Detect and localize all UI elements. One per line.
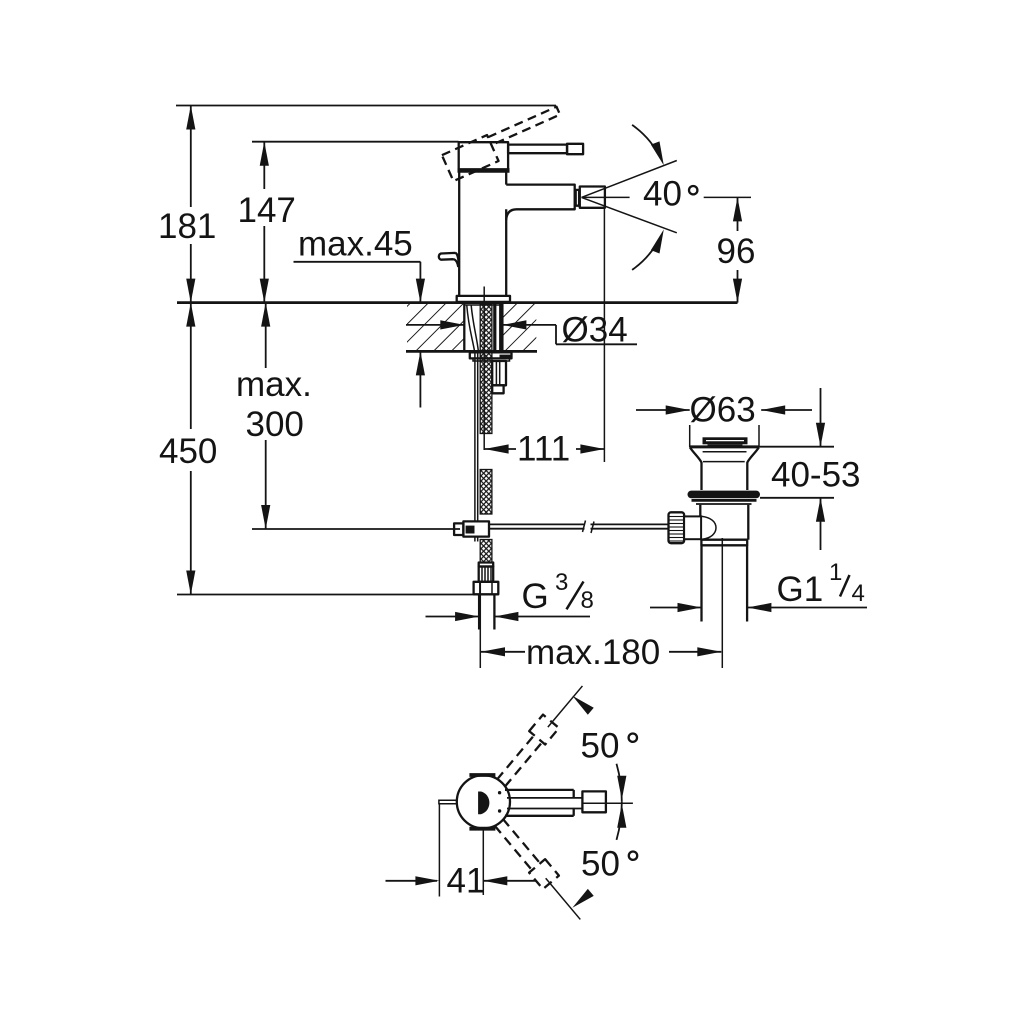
braided flex hose middle segment <box>480 470 492 515</box>
top view handle lever <box>505 790 583 816</box>
hose tail tube <box>478 594 480 629</box>
faucet lever handle horizontal <box>508 145 567 154</box>
dimension 40-53 <box>749 388 861 550</box>
svg-text:8: 8 <box>581 587 594 614</box>
svg-text:max.: max. <box>236 365 312 404</box>
50 degree arc lower <box>617 802 622 840</box>
svg-text:111: 111 <box>517 430 570 469</box>
dashed ghost handle rotated down 50 degrees <box>492 815 590 926</box>
dimension Ø63 <box>636 391 812 448</box>
pop-up pull knob on body <box>439 253 459 267</box>
mounting shank walls through counter <box>463 303 465 352</box>
pop-up waste tailpipe <box>700 545 702 621</box>
wire spout-top reference line (147) <box>252 141 459 143</box>
top view D-shaped logo mark <box>478 792 489 815</box>
svg-text:40: 40 <box>643 175 682 214</box>
mounting stud and nut below counter <box>492 361 506 385</box>
wire bottom reference line (450) <box>177 594 475 596</box>
svg-text:max.45: max.45 <box>298 225 413 264</box>
dimension 147 <box>238 142 296 303</box>
svg-text:G: G <box>522 577 549 616</box>
dimension max.180 <box>480 583 721 672</box>
svg-text:4: 4 <box>852 580 865 607</box>
hose end fitting threads <box>479 563 494 567</box>
counter cross-section hatching left <box>407 304 464 350</box>
spout <box>506 185 575 220</box>
pop-up waste o-ring <box>688 491 761 499</box>
drain centerline <box>721 538 723 668</box>
aerator ring <box>576 190 579 206</box>
wire max.300 bottom reference line <box>252 528 460 530</box>
knurled adjuster knob <box>669 512 685 543</box>
threaded stud dark bars in shank <box>493 304 496 351</box>
top view handle end knob <box>582 791 606 812</box>
fastening washer below counter <box>470 352 512 358</box>
top view screw dots <box>498 791 501 794</box>
braided flex hose upper segment <box>480 304 492 434</box>
top view cap chord top <box>469 773 495 777</box>
extension line from aerator down to 111 dimension <box>603 209 605 463</box>
svg-text:3: 3 <box>555 569 568 596</box>
wire counter bottom surface line <box>406 350 537 353</box>
svg-text:300: 300 <box>246 405 304 444</box>
svg-text:Ø63: Ø63 <box>690 391 756 430</box>
horizontal pop-up linkage rod <box>489 523 585 525</box>
svg-text:50: 50 <box>581 727 620 766</box>
dashed ghost handle rotated up 50 degrees <box>492 678 590 789</box>
pop-up rod tee clamp <box>454 523 463 535</box>
40 degree arc upper <box>632 125 661 159</box>
top view cap chord bottom <box>469 827 495 831</box>
top view faucet body circle <box>457 775 510 828</box>
dimension G 3/8 <box>426 569 594 621</box>
svg-text:1: 1 <box>829 559 842 586</box>
svg-text:96: 96 <box>717 232 756 271</box>
pop-up rod vertical <box>474 352 476 521</box>
50 degree arc upper <box>617 764 622 802</box>
wire counter top surface line <box>177 301 738 304</box>
dimension 41 <box>386 805 537 901</box>
counter cross-section hatching right <box>503 304 536 350</box>
svg-text:G1: G1 <box>777 570 824 609</box>
svg-text:41: 41 <box>447 862 486 901</box>
dimension 181 <box>158 106 216 303</box>
pop-up waste collar <box>692 499 757 502</box>
hose connection nut G3/8 <box>474 582 499 595</box>
svg-text:max.180: max.180 <box>526 633 660 672</box>
braided flex hose lower segment <box>480 540 492 563</box>
dashed ghost of tilted lever <box>442 105 567 182</box>
dimension 111 <box>485 430 605 469</box>
dimension G1 1/4 <box>650 559 867 612</box>
svg-text:450: 450 <box>159 432 217 471</box>
pop-up waste lower band <box>701 540 747 546</box>
pop-up waste flange <box>689 445 759 448</box>
dimension max.45 (deck thickness) <box>294 225 426 408</box>
40 degree arc lower <box>632 236 661 270</box>
dimension 96 <box>717 197 756 302</box>
dimension 450 <box>159 303 217 595</box>
spray cone lines <box>582 161 677 198</box>
svg-text:50: 50 <box>581 845 620 884</box>
pop-up waste body <box>699 505 701 540</box>
top view handle axis line <box>582 802 633 804</box>
svg-text:147: 147 <box>238 191 296 230</box>
top view pop-up rod at rear <box>439 800 458 803</box>
faucet cap (cartridge housing) <box>459 142 508 170</box>
faucet base flange <box>457 296 510 302</box>
dimension Ø34 with leader <box>406 311 637 350</box>
faucet body walls <box>458 171 460 296</box>
svg-text:Ø34: Ø34 <box>562 311 628 350</box>
svg-text:181: 181 <box>158 207 216 246</box>
knob stem into drain body <box>684 516 701 539</box>
wire top reference line (total height 181) <box>176 105 556 107</box>
aerator / mousseur <box>580 187 605 208</box>
pop-up waste plug top <box>703 437 748 444</box>
faucet vertical axis extension line <box>483 287 485 451</box>
dimension max.300 <box>236 303 312 529</box>
bent supply tube inside shank <box>467 306 475 352</box>
svg-text:40-53: 40-53 <box>771 456 861 495</box>
